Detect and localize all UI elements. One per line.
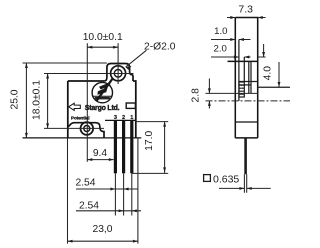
- svg-text:4.0: 4.0: [263, 66, 274, 81]
- svg-text:Potential: Potential: [71, 115, 90, 120]
- svg-text:2: 2: [122, 115, 125, 121]
- svg-text:3: 3: [114, 115, 117, 121]
- svg-text:7.3: 7.3: [238, 4, 253, 16]
- svg-text:1.0: 1.0: [214, 26, 227, 37]
- svg-text:2.54: 2.54: [75, 178, 95, 189]
- svg-text:9.4: 9.4: [93, 148, 108, 159]
- svg-text:18.0±0.1: 18.0±0.1: [32, 80, 43, 120]
- svg-text:2-Ø2.0: 2-Ø2.0: [144, 42, 176, 53]
- svg-text:Stargo Ltd.: Stargo Ltd.: [85, 105, 120, 112]
- svg-text:17.0: 17.0: [144, 131, 155, 151]
- svg-text:2.54: 2.54: [79, 201, 99, 212]
- svg-text:0.635: 0.635: [213, 174, 239, 186]
- svg-text:1: 1: [130, 115, 133, 121]
- svg-text:2.8: 2.8: [191, 88, 202, 103]
- svg-text:10.0±0.1: 10.0±0.1: [83, 32, 123, 43]
- svg-text:23,0: 23,0: [92, 224, 112, 235]
- svg-text:2.0: 2.0: [214, 44, 227, 55]
- svg-text:25.0: 25.0: [9, 89, 20, 109]
